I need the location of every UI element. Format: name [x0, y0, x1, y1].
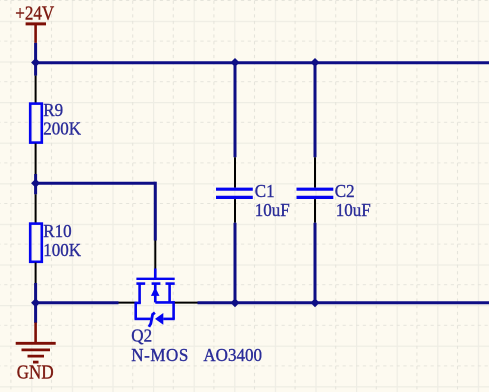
wire R10 to bottom rail [34, 283, 37, 303]
power port +24V [15, 2, 55, 43]
svg-text:GND: GND [17, 362, 54, 383]
svg-text:R10: R10 [43, 220, 71, 241]
pin R10.2 [35, 263, 37, 284]
svg-text:Q2: Q2 [131, 325, 152, 346]
junction top-left [31, 58, 40, 67]
resistor R9 [30, 104, 42, 143]
ground GND [16, 323, 56, 383]
wire gate vertical [154, 182, 157, 241]
wire C2 lower [314, 223, 317, 303]
svg-text:10uF: 10uF [255, 199, 290, 220]
pin C1.1 [234, 157, 236, 187]
wire R9 to junction [34, 174, 37, 183]
svg-text:10uF: 10uF [336, 199, 371, 220]
pin Q2 drain [175, 302, 198, 304]
junction divider node [31, 179, 40, 188]
pin C2.2 [314, 199, 316, 223]
svg-text:AO3400: AO3400 [203, 344, 262, 365]
pin R9.1 [35, 76, 37, 103]
junction C1 bottom [231, 298, 240, 307]
wire C2 upper [314, 63, 317, 158]
capacitor C1 [216, 189, 253, 197]
junction bottom-left [31, 298, 40, 307]
capacitor C2 [297, 189, 334, 197]
svg-text:200K: 200K [43, 118, 81, 139]
svg-text:R9: R9 [43, 99, 63, 120]
wire bottom rail right [198, 301, 489, 304]
svg-text:100K: 100K [43, 239, 81, 260]
pin C2.1 [314, 157, 316, 187]
junction C2 top [311, 58, 320, 67]
wire to ground [34, 303, 37, 323]
pin Q2 gate [154, 241, 156, 270]
svg-text:C2: C2 [335, 180, 355, 201]
svg-text:C1: C1 [255, 180, 275, 201]
pin Q2 source [119, 302, 137, 304]
svg-text:N-MOS: N-MOS [131, 344, 189, 365]
transistor Q2 [135, 269, 175, 327]
wire bottom rail left [36, 301, 119, 304]
resistor R10 [30, 224, 42, 262]
wire top rail [36, 61, 489, 64]
pin R9.2 [35, 144, 37, 175]
wire +24V to top rail [34, 43, 37, 64]
junction C2 bottom [311, 298, 320, 307]
wire junction to R10 [34, 183, 37, 194]
wire top rail to R9 [34, 63, 37, 76]
junction C1 top [231, 58, 240, 67]
wire C1 upper [234, 63, 237, 158]
pin C1.2 [234, 199, 236, 223]
wire gate horizontal [36, 182, 156, 185]
svg-text:+24V: +24V [15, 2, 55, 23]
wire C1 lower [234, 223, 237, 303]
pin R10.1 [35, 194, 37, 222]
